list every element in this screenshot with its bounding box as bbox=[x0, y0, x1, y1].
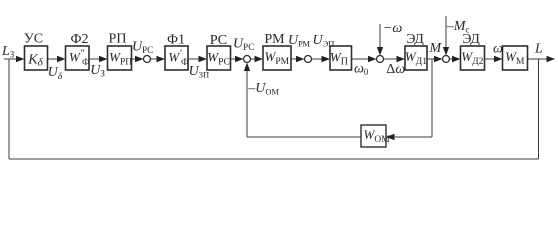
node C1 circle bbox=[144, 56, 151, 63]
wire: WD1 to node C5 bbox=[427, 58, 435, 60]
block ED2 (Wd2) bbox=[461, 46, 485, 70]
arrowhead into RS block bbox=[199, 56, 208, 62]
arrowhead left into WOM block bbox=[386, 134, 395, 140]
arrowhead up into node C2 (-Uom) bbox=[244, 63, 250, 72]
svg-text:Ф: Ф bbox=[82, 58, 90, 68]
node C3 circle bbox=[305, 56, 312, 63]
arrowhead of L output bbox=[547, 56, 556, 62]
block WM bbox=[503, 46, 528, 70]
wire: node C1 to F1 bbox=[151, 58, 158, 60]
arrowhead into RM block bbox=[255, 56, 264, 62]
wire: WD2 to WM bbox=[485, 58, 496, 60]
arrowhead into WM block bbox=[494, 56, 503, 62]
svg-text:Ф2: Ф2 bbox=[70, 32, 88, 47]
svg-text:РС: РС bbox=[210, 33, 227, 48]
arrowhead into WD2 block bbox=[452, 56, 461, 62]
node C2 circle (sum with -Uom) bbox=[244, 56, 251, 63]
block ED1 (Wd1) bbox=[405, 46, 427, 70]
node C4 circle (sum with -omega) bbox=[377, 56, 384, 63]
arrowhead into node C5 bbox=[434, 56, 443, 62]
svg-text:Ф: Ф bbox=[181, 58, 189, 68]
wire: -Mc input vertical bbox=[445, 16, 447, 49]
arrowhead down into node C5 (-Mc) bbox=[443, 47, 449, 56]
node C5 circle (sum with -Mc) bbox=[443, 56, 450, 63]
block F1 (W'f) bbox=[165, 46, 188, 70]
svg-text:M: M bbox=[429, 41, 443, 56]
wire: RS to node C2 bbox=[231, 58, 237, 60]
svg-text:ЭД: ЭД bbox=[406, 32, 424, 47]
wire: F2 to RP bbox=[89, 58, 100, 60]
arrowhead into WP block bbox=[322, 56, 331, 62]
arrowhead into K block bbox=[16, 56, 25, 62]
svg-text:РП: РП bbox=[109, 32, 127, 47]
wire: node C2 to RM bbox=[251, 58, 256, 60]
wire: feedback from WOM to left bbox=[247, 136, 361, 138]
svg-text:Ф1: Ф1 bbox=[167, 33, 185, 48]
arrowhead into node C3 bbox=[296, 56, 305, 62]
svg-text:−ω: −ω bbox=[383, 21, 402, 36]
wire: -omega input vertical bbox=[379, 24, 381, 49]
wire: outer feedback right vertical bbox=[538, 59, 540, 159]
svg-text:РМ: РМ bbox=[264, 32, 285, 47]
wire: outer feedback bottom bbox=[9, 158, 539, 160]
arrowhead into node C4 bbox=[368, 56, 377, 62]
wire: WP to node C4 bbox=[352, 58, 370, 60]
wire: F1 to RS bbox=[188, 58, 200, 60]
wire: RP to node C1 bbox=[132, 58, 137, 60]
svg-text:L: L bbox=[534, 41, 543, 56]
arrowhead into WD1 block bbox=[397, 56, 406, 62]
wire: L3 input line bbox=[4, 58, 17, 60]
arrowhead into F2 block bbox=[57, 56, 66, 62]
arrowhead down into node C4 (-omega) bbox=[377, 47, 383, 56]
wire: WM to L output bbox=[528, 58, 548, 60]
block WP bbox=[330, 46, 352, 70]
arrowhead into node C2 bbox=[235, 56, 244, 62]
wire: RM to node C3 bbox=[291, 58, 297, 60]
arrowhead into node C1 bbox=[135, 56, 144, 62]
wire: K to F2 bbox=[48, 58, 59, 60]
svg-text:Δω: Δω bbox=[386, 62, 405, 77]
block WOM bbox=[361, 125, 386, 147]
block RS (Wrs) bbox=[207, 46, 231, 70]
block RM (Wrm) bbox=[263, 46, 291, 70]
wire: feedback vertical up to node C2 bbox=[246, 70, 248, 138]
wire: outer feedback left vertical bbox=[8, 59, 10, 159]
wire: node C5 to WD2 bbox=[450, 58, 454, 60]
svg-text:.: . bbox=[307, 39, 309, 49]
wire: feedback horizontal into WOM bbox=[394, 136, 432, 138]
svg-text:УС: УС bbox=[24, 32, 43, 47]
arrowhead into F1 block bbox=[157, 56, 166, 62]
block US (K-delta) bbox=[25, 46, 48, 70]
wire: feedback tap vertical from M bbox=[431, 59, 433, 137]
arrowhead into RP block bbox=[99, 56, 108, 62]
svg-text:ω: ω bbox=[493, 42, 503, 57]
wire: node C3 to WP bbox=[312, 58, 323, 60]
block F2 (W''f) bbox=[66, 46, 90, 70]
block RP (Wrp) bbox=[108, 46, 132, 70]
wire: node C4 to WD1 bbox=[384, 58, 398, 60]
